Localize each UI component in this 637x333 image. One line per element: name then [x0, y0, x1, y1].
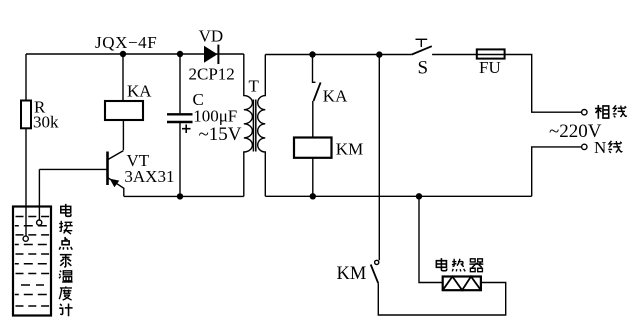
diode VD: [204, 46, 218, 63]
svg-text:N: N: [594, 138, 606, 157]
fuse FU: [477, 49, 505, 58]
contact circle right: [37, 220, 42, 225]
label "electric-contact mercury thermometer" (vertical CJK): [61, 204, 71, 216]
svg-text:KM: KM: [336, 140, 363, 159]
wire: left contact into thermometer: [25, 207, 27, 237]
wire: KA coil to top rail: [122, 54, 124, 101]
node: junction dot heater branch: [416, 193, 422, 199]
wire: top rail right: [265, 54, 412, 56]
svg-text:FU: FU: [479, 58, 501, 77]
switch S: [412, 46, 432, 54]
contact circle left: [23, 236, 28, 241]
node: junction dot KA branch: [120, 51, 126, 57]
svg-text:JQX−4F: JQX−4F: [95, 33, 157, 52]
wire: N line: [532, 147, 582, 196]
svg-text:VD: VD: [199, 27, 224, 46]
terminal: phase line circle: [582, 110, 587, 115]
svg-text:~15V: ~15V: [199, 124, 242, 145]
transistor VT (PNP): [106, 152, 109, 186]
node: junction dot capacitor top: [177, 51, 183, 57]
svg-text:30k: 30k: [33, 113, 59, 132]
transformer core: [252, 100, 254, 152]
transformer T secondary winding: [258, 55, 266, 197]
wire: KM contact vertical (crosses bottom rail): [378, 55, 380, 261]
contact KA (normally-open relay contact): [313, 55, 316, 83]
wire: heater loop bottom: [378, 283, 505, 316]
svg-text:S: S: [418, 58, 429, 79]
relay coil KA: [105, 101, 143, 120]
wire: bottom rail right: [265, 195, 531, 197]
contactor coil KM: [294, 138, 332, 158]
wire: right contact: [38, 169, 40, 220]
svg-text:100μF: 100μF: [193, 107, 237, 126]
wire: base lead: [39, 168, 107, 170]
wire: heater branch down: [419, 196, 443, 282]
svg-text:KA: KA: [127, 82, 152, 101]
wire: left rail down to thermometer: [25, 54, 27, 235]
thermometer body (sensor): [13, 207, 51, 316]
wire: KM coil bottom: [312, 158, 314, 197]
node: junction dot KA contact branch: [309, 51, 315, 57]
svg-text:KA: KA: [323, 87, 348, 106]
svg-text:2CP12: 2CP12: [189, 65, 235, 84]
contact KM (normally-open, heater loop): [375, 260, 379, 264]
capacitor C (electrolytic): [179, 54, 181, 113]
svg-text:3AX31: 3AX31: [124, 167, 174, 186]
polarity mark +: [182, 125, 191, 134]
label "phase line" (CJK): [595, 105, 609, 119]
svg-text:KM: KM: [337, 264, 367, 284]
node: junction dot KM coil bottom: [310, 193, 316, 199]
label "electric heater" (CJK): [436, 258, 446, 271]
wire: top rail left: [26, 53, 244, 55]
mercury dashes: [15, 217, 50, 307]
resistor R: [21, 101, 31, 129]
transformer T primary winding: [244, 54, 253, 196]
heater element (electric heater): [443, 277, 481, 291]
node: junction dot capacitor bottom: [177, 193, 183, 199]
wire: bottom rail left: [124, 195, 244, 197]
wire: coil bottom to collector: [122, 120, 124, 150]
node: junction dot KM contact branch: [376, 51, 382, 57]
terminal: N line circle: [582, 144, 587, 149]
svg-text:T: T: [249, 77, 260, 96]
